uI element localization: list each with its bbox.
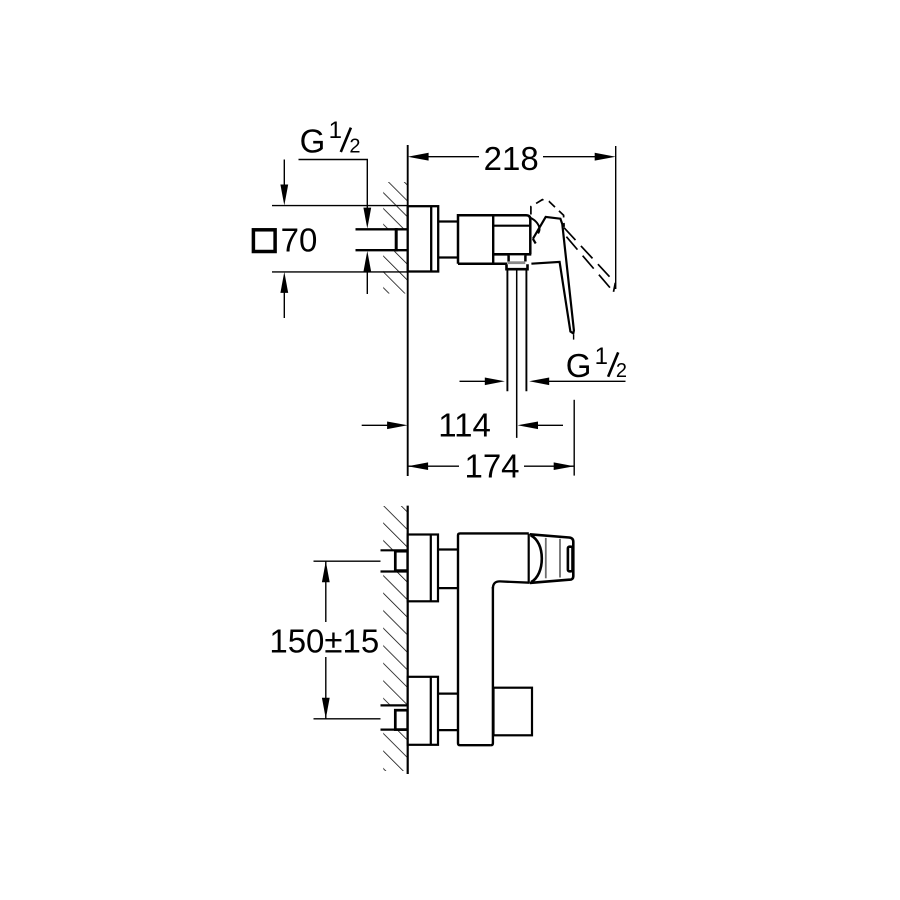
dim 114 left shaft xyxy=(362,424,389,426)
svg-text:114: 114 xyxy=(438,407,491,444)
svg-text:2: 2 xyxy=(349,136,360,158)
outlet box fig2 xyxy=(494,688,533,736)
arrow shaft up-left xyxy=(283,290,285,318)
arrow shaft up at pipe bottom xyxy=(366,269,368,294)
down arrow G12 top xyxy=(363,208,371,229)
escutcheon fig1 xyxy=(408,206,439,271)
174 left arrow (points left) xyxy=(408,462,429,470)
svg-text:70: 70 xyxy=(281,221,318,258)
svg-text:1: 1 xyxy=(329,117,342,144)
connector top fig2 xyxy=(438,550,458,589)
square70 bottom extension line xyxy=(272,271,408,273)
svg-text:G: G xyxy=(566,347,592,384)
solid handle fig1 xyxy=(531,217,574,340)
connector nipple fig1 xyxy=(438,222,458,258)
down arrow left (sq70) xyxy=(280,185,288,206)
union box bottom fig2 xyxy=(395,710,407,729)
dashed handle (raised position) fig1 xyxy=(531,200,615,292)
slash of G12 top xyxy=(341,128,351,152)
top supply pipe fig2 xyxy=(381,550,408,571)
hose nut fig1 xyxy=(507,264,528,269)
174 right arrow (points right) xyxy=(554,462,575,470)
wall line fig1 xyxy=(407,145,409,476)
texts xyxy=(269,117,627,659)
G12 bottom left arrow (points right) xyxy=(485,378,505,386)
svg-text:218: 218 xyxy=(484,140,539,177)
body fig2 xyxy=(458,533,530,745)
arrowheads xyxy=(280,153,615,719)
wall hatching fig1 lower xyxy=(383,252,407,294)
dim 150 bottom extension xyxy=(314,718,395,720)
114 left arrow (points right) xyxy=(387,422,408,430)
150 up arrow xyxy=(322,561,330,582)
bottom supply pipe fig2 xyxy=(381,705,408,729)
dim 174 right extension xyxy=(573,400,575,476)
G 1/2 top leader xyxy=(299,160,368,211)
G12 bottom right arrow (points left) xyxy=(529,378,549,386)
cartridge cap fig2 xyxy=(530,534,574,583)
union nut fig1 xyxy=(395,228,398,252)
svg-text:174: 174 xyxy=(464,448,519,485)
cap internal lines fig2 xyxy=(545,538,547,578)
inlet pipe fig1 xyxy=(356,228,408,252)
gray nut shade band xyxy=(507,261,525,264)
dome arc fig2 xyxy=(531,535,542,582)
G 1/2 bottom dim line xyxy=(460,380,487,382)
escutcheon bottom fig2 xyxy=(408,677,438,745)
square symbol of 70 xyxy=(253,230,275,252)
dim 114 right shaft xyxy=(536,424,563,426)
outlet pipe fig1 xyxy=(507,270,526,438)
dim 218 right extension line xyxy=(615,146,617,289)
connector bottom fig2 xyxy=(438,694,458,731)
main body fig1 xyxy=(458,215,531,264)
wall hatching fig1 upper xyxy=(383,182,407,229)
pipe centre extension line xyxy=(516,270,518,438)
114 right arrow (points left) xyxy=(518,422,539,430)
dim 150 top extension xyxy=(314,560,391,562)
dim 150 vertical shafts xyxy=(325,561,327,622)
218 right arrow xyxy=(595,153,616,161)
outlet stub fig1 xyxy=(507,255,528,269)
svg-text:150±15: 150±15 xyxy=(269,622,379,659)
wall line fig2 xyxy=(407,506,409,774)
218 left arrow xyxy=(408,153,429,161)
up arrow G12 top xyxy=(363,251,371,272)
slash of G12 bottom xyxy=(608,352,618,376)
arrow shaft down-left xyxy=(283,160,285,188)
150 down arrow xyxy=(322,698,330,719)
handle bar end-on fig2 xyxy=(568,547,573,572)
up arrow left (sq70) xyxy=(280,272,288,293)
square70 top extension line xyxy=(272,205,408,207)
svg-text:2: 2 xyxy=(616,360,627,382)
svg-text:1: 1 xyxy=(595,343,608,370)
escutcheon top fig2 xyxy=(408,535,438,602)
svg-text:G: G xyxy=(300,123,326,160)
dim 218 line xyxy=(428,156,479,158)
cartridge dome arc fig1 xyxy=(529,217,540,233)
dim 174 line xyxy=(408,465,459,467)
union box top fig2 xyxy=(395,551,407,570)
wall hatching fig2 xyxy=(383,506,407,771)
